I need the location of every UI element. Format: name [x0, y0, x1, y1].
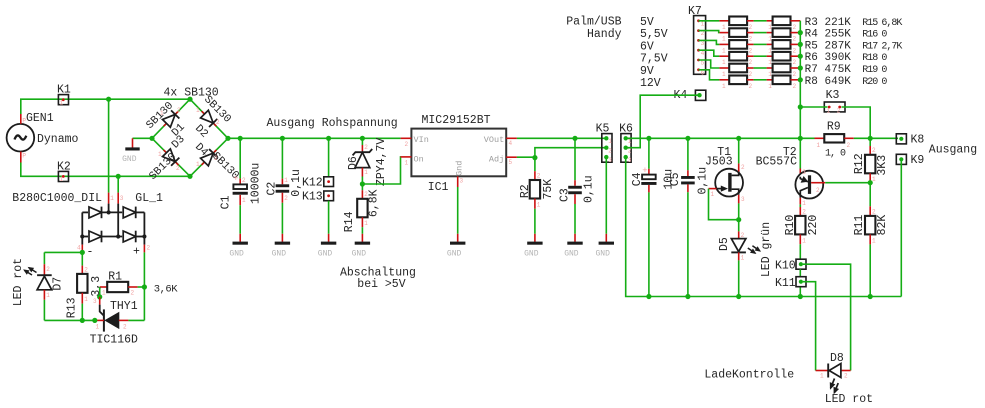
- svg-text:Ausgang: Ausgang: [929, 143, 977, 156]
- svg-text:1, 0: 1, 0: [825, 149, 846, 160]
- ground symbol under C2: [272, 234, 291, 259]
- capacitor C2 0,1u: [266, 138, 304, 234]
- svg-text:GL_1: GL_1: [135, 192, 163, 205]
- connector K5: [596, 122, 613, 164]
- label voltage 12V: [640, 77, 661, 90]
- wire raw voltage rail (bridge to IC VIn): [228, 137, 401, 139]
- svg-text:10000u: 10000u: [250, 163, 263, 204]
- svg-text:R5: R5: [805, 40, 818, 52]
- svg-text:1: 1: [608, 138, 612, 145]
- svg-text:1: 1: [60, 176, 64, 183]
- svg-text:2: 2: [793, 24, 797, 31]
- ground symbol under K13: [318, 234, 337, 259]
- wire T2 collector to R10: [799, 204, 801, 207]
- connector K7: [688, 5, 706, 76]
- wire K7 pin6 to resistor row R8: [699, 70, 720, 80]
- pin stub GL_1 plus: [143, 245, 145, 253]
- wire base node down to R11: [869, 183, 871, 207]
- junction D6/R14/On node: [360, 181, 365, 186]
- pin stub T2 collector: [799, 198, 801, 205]
- svg-text:R7: R7: [805, 64, 818, 76]
- svg-text:1: 1: [196, 107, 200, 114]
- svg-text:1: 1: [102, 290, 106, 297]
- pin stub THY1 anode: [119, 319, 129, 321]
- svg-text:2: 2: [242, 177, 246, 184]
- pin stub T2 base: [811, 182, 825, 184]
- svg-text:C3: C3: [559, 188, 572, 202]
- label B280C1000_DIL: [12, 192, 102, 205]
- svg-text:0,1u: 0,1u: [583, 175, 596, 203]
- wire K5 pin3 to ground: [605, 157, 607, 234]
- diode D2 SB130 (top-right arm): [192, 94, 233, 141]
- wire between R7 and R19: [754, 67, 767, 69]
- resistor R12 3K3: [853, 138, 889, 183]
- junction C4 ground rail: [646, 294, 651, 299]
- svg-text:6V: 6V: [640, 40, 654, 53]
- wire IC1 Gnd down: [457, 187, 459, 234]
- svg-text:2: 2: [216, 119, 220, 126]
- wire from GEN1 to K1 and bridge top node (net N$1): [21, 99, 190, 114]
- node bottom of bridge: [187, 174, 192, 179]
- wire T2 emitter: [799, 138, 801, 168]
- svg-text:K3: K3: [826, 89, 840, 102]
- junction K3 left on divider column: [798, 104, 803, 109]
- svg-text:2: 2: [749, 71, 753, 78]
- junction R13 on cathode line: [80, 318, 85, 323]
- svg-text:THY1: THY1: [110, 300, 138, 313]
- svg-text:390K: 390K: [825, 52, 852, 64]
- label Palm/USB Handy: [566, 16, 621, 42]
- svg-text:LED rot: LED rot: [12, 258, 25, 306]
- svg-text:221K: 221K: [825, 17, 852, 29]
- svg-text:D8: D8: [830, 352, 844, 365]
- label R3 221K: [805, 17, 852, 29]
- svg-text:1: 1: [158, 151, 162, 158]
- junction D6 on rail: [360, 136, 365, 141]
- wire K10 to D8 anode: [803, 264, 851, 370]
- svg-text:R12: R12: [853, 153, 866, 174]
- LED D8 rot (LadeKontrolle): [820, 352, 873, 406]
- svg-text:1: 1: [872, 238, 876, 245]
- svg-text:Adj: Adj: [489, 155, 504, 165]
- svg-text:2: 2: [837, 108, 841, 115]
- junction R9/K3/R12/K8 node: [868, 136, 873, 141]
- svg-text:75K: 75K: [542, 179, 555, 200]
- svg-text:K13: K13: [302, 191, 323, 204]
- junction divider column row 6: [798, 77, 803, 82]
- junction C2 on rail: [280, 136, 285, 141]
- svg-text:1: 1: [405, 160, 409, 167]
- connector K11: [775, 277, 806, 290]
- svg-text:255K: 255K: [825, 29, 852, 41]
- junction on K1 net to GL_1 pin1: [106, 97, 111, 193]
- connector K12: [302, 176, 334, 189]
- junction C4 on output rail: [646, 136, 651, 141]
- wire between R4 and R16: [754, 32, 767, 34]
- junction T2/K3/divider on output rail: [798, 136, 803, 141]
- capacitor C5 0,1u: [669, 138, 710, 296]
- node right of bridge: [225, 136, 230, 141]
- resistor R3 221K: [719, 17, 753, 31]
- svg-text:GND: GND: [229, 249, 244, 258]
- svg-text:1: 1: [284, 177, 288, 184]
- junction divider column row 5: [798, 65, 803, 70]
- junction C5 on output rail: [685, 136, 690, 141]
- svg-text:287K: 287K: [825, 40, 852, 52]
- wire T2 base to divider node: [825, 182, 870, 184]
- svg-text:R13: R13: [66, 297, 79, 318]
- wire K3 left: [800, 106, 827, 108]
- pin stub GL_1 pin1: [109, 193, 115, 204]
- ground symbol under R2: [524, 234, 543, 259]
- label R6 390K: [805, 52, 852, 64]
- svg-text:1: 1: [722, 47, 726, 54]
- svg-text:C5: C5: [669, 172, 682, 186]
- svg-text:VIn: VIn: [414, 135, 429, 145]
- junction R10/K11 ground rail: [798, 294, 803, 299]
- svg-text:6,8K: 6,8K: [368, 189, 381, 217]
- ground symbol under K5: [595, 234, 614, 259]
- svg-text:R8: R8: [805, 76, 818, 88]
- wire bridge edge left-bottom: [152, 138, 190, 176]
- label R16 0: [862, 30, 887, 41]
- junction T2 base / R12 / R11 node: [868, 180, 873, 185]
- zener diode D6 ZPY4,7V: [347, 138, 388, 186]
- svg-text:On: On: [414, 155, 424, 165]
- svg-text:Gnd: Gnd: [455, 161, 465, 176]
- svg-text:1: 1: [364, 220, 368, 227]
- label R15 6,8K: [862, 18, 902, 29]
- pin stub IC1 Adj: [506, 156, 517, 158]
- ground symbol at bridge left node: [122, 138, 152, 164]
- svg-text:2: 2: [749, 59, 753, 66]
- svg-text:1: 1: [537, 202, 541, 209]
- wire between R8 and R20: [754, 79, 767, 81]
- svg-text:TIC116D: TIC116D: [90, 334, 138, 347]
- svg-text:D6: D6: [347, 156, 360, 170]
- pin stub D8 anode: [841, 370, 850, 372]
- svg-text:1: 1: [711, 191, 715, 198]
- svg-text:R10: R10: [784, 215, 797, 236]
- svg-text:K10: K10: [775, 260, 796, 273]
- connector K10: [775, 259, 806, 272]
- svg-text:R20: R20: [862, 77, 878, 88]
- svg-text:2: 2: [537, 173, 541, 180]
- svg-text:K8: K8: [911, 133, 925, 146]
- generator GEN1 Dynamo: [7, 112, 79, 163]
- svg-text:GND: GND: [318, 249, 333, 258]
- capacitor C3 0,1u: [559, 138, 596, 234]
- svg-text:1: 1: [160, 110, 164, 117]
- wire to IC On pin: [362, 157, 401, 184]
- svg-text:2: 2: [749, 24, 753, 31]
- svg-text:6,8K: 6,8K: [881, 18, 902, 29]
- label R4 255K: [805, 29, 852, 41]
- svg-text:VOut: VOut: [484, 135, 504, 145]
- resistor R19 0: [767, 64, 801, 78]
- resistor R14 6,8K: [343, 184, 381, 234]
- svg-text:7,5V: 7,5V: [640, 53, 668, 66]
- wire K7 pin3 to resistor row R5: [699, 40, 720, 44]
- pin stub T2 emitter: [799, 169, 801, 178]
- svg-text:3: 3: [608, 157, 612, 164]
- svg-text:1: 1: [110, 195, 114, 202]
- svg-text:12V: 12V: [640, 77, 661, 90]
- wire anode to plus wire: [128, 319, 144, 321]
- svg-text:+: +: [233, 174, 238, 184]
- resistor R13 3,3: [66, 266, 103, 321]
- junction divider column row 4: [798, 54, 803, 59]
- svg-text:3: 3: [460, 178, 464, 185]
- wire cathode line: [44, 319, 94, 321]
- svg-text:K9: K9: [911, 154, 925, 167]
- svg-text:5V: 5V: [640, 16, 654, 29]
- svg-text:2: 2: [284, 195, 288, 202]
- svg-text:2: 2: [793, 36, 797, 43]
- svg-text:R19: R19: [862, 65, 878, 76]
- svg-text:2: 2: [214, 155, 218, 162]
- wire switched ground rail: [626, 157, 902, 296]
- svg-text:1: 1: [820, 373, 824, 380]
- svg-text:BC557C: BC557C: [756, 156, 798, 169]
- jumper K3: [824, 89, 845, 115]
- svg-text:4: 4: [509, 140, 513, 147]
- svg-text:R17: R17: [862, 41, 878, 52]
- svg-text:GND: GND: [564, 249, 579, 258]
- svg-text:5: 5: [509, 159, 513, 166]
- svg-text:R15: R15: [862, 18, 878, 29]
- svg-text:1: 1: [722, 83, 726, 90]
- svg-text:B280C1000_DIL: B280C1000_DIL: [12, 192, 102, 205]
- resistor R15 6,8K: [767, 17, 801, 31]
- wire K3 right down to rail: [842, 107, 871, 138]
- resistor R10 220: [784, 207, 820, 259]
- svg-text:R9: R9: [827, 121, 841, 134]
- wire K7 pin4 to resistor row R6: [699, 50, 720, 56]
- svg-text:2: 2: [844, 373, 848, 380]
- wire T1 drain: [738, 138, 740, 163]
- svg-text:2: 2: [802, 209, 806, 216]
- svg-text:82K: 82K: [876, 215, 889, 236]
- svg-text:2: 2: [177, 107, 181, 114]
- label R19 0: [862, 65, 887, 76]
- op-amp regulator U IC1 MIC29152BT: [405, 114, 513, 194]
- wire K7 pin2 to resistor row R4: [699, 31, 720, 33]
- svg-text:1: 1: [802, 238, 806, 245]
- svg-text:R16: R16: [862, 30, 878, 41]
- label Ausgang: [929, 143, 977, 156]
- svg-text:9V: 9V: [640, 65, 654, 78]
- svg-text:GND: GND: [447, 249, 462, 258]
- label R20 0: [862, 77, 887, 88]
- wire GL minus node: [44, 252, 82, 265]
- connector K9: [896, 154, 924, 167]
- junction on K2 net to GL_1 pin3: [116, 174, 121, 193]
- svg-text:R11: R11: [853, 215, 866, 236]
- svg-text:3: 3: [93, 298, 97, 305]
- svg-text:2: 2: [123, 324, 127, 331]
- svg-text:1: 1: [242, 197, 246, 204]
- svg-text:R3: R3: [805, 17, 818, 29]
- svg-text:2: 2: [793, 71, 797, 78]
- svg-text:LadeKontrolle: LadeKontrolle: [704, 369, 794, 382]
- svg-text:1: 1: [60, 100, 64, 107]
- transistor T2 BC557C (PNP): [756, 146, 824, 207]
- wire R1 left to thyristor gate: [99, 287, 101, 297]
- label R7 475K: [805, 64, 852, 76]
- svg-text:2: 2: [405, 141, 409, 148]
- svg-text:R2: R2: [519, 184, 532, 198]
- resistor R1 3,6K: [100, 271, 179, 297]
- svg-text:R18: R18: [862, 53, 878, 64]
- svg-text:1: 1: [46, 292, 50, 299]
- wire between R3 and R15: [754, 20, 767, 22]
- svg-text:2: 2: [816, 187, 820, 194]
- svg-text:GEN1: GEN1: [26, 112, 54, 125]
- ground symbol under R14: [352, 234, 371, 259]
- capacitor C1 10000u: [220, 138, 263, 234]
- label GL_1: [135, 192, 163, 205]
- node top of bridge: [187, 97, 192, 102]
- label R5 287K: [805, 40, 852, 52]
- svg-text:2: 2: [608, 147, 612, 154]
- ground symbol under C1: [229, 234, 248, 259]
- LED D7 rot: [12, 252, 65, 306]
- pin stub IC1 On: [401, 156, 412, 158]
- wire output rail K6 to R9: [626, 137, 815, 139]
- svg-text:IC1: IC1: [428, 181, 449, 194]
- svg-text:P: P: [22, 153, 26, 160]
- pin stub GL_1 minus: [81, 245, 83, 253]
- junction C3 on rail: [572, 136, 577, 141]
- wire T1 source to gate loop: [738, 203, 740, 219]
- junction C5 ground rail: [685, 294, 690, 299]
- svg-text:Dynamo: Dynamo: [37, 133, 79, 146]
- svg-text:3,6K: 3,6K: [154, 284, 178, 296]
- connector K1: [57, 84, 71, 107]
- wire rail to K12: [326, 136, 331, 177]
- label voltage 5V: [640, 16, 654, 29]
- pin stub T1 gate: [709, 188, 717, 190]
- resistor R5 287K: [719, 40, 753, 54]
- wire R10 to K10 to K11 to rail: [799, 269, 801, 296]
- svg-text:K12: K12: [302, 176, 323, 189]
- svg-text:1: 1: [817, 142, 821, 149]
- svg-text:C1: C1: [220, 195, 233, 209]
- wire R9 to K8: [854, 137, 898, 139]
- wire Adj to node: [517, 156, 535, 158]
- label voltage 6V: [640, 40, 654, 53]
- svg-text:-: -: [87, 246, 94, 259]
- label R8 649K: [805, 76, 852, 88]
- junction C1 on rail: [238, 136, 243, 141]
- svg-text:Handy: Handy: [587, 28, 622, 41]
- pin stub D8 cathode: [816, 370, 828, 372]
- svg-text:2: 2: [793, 47, 797, 54]
- svg-text:Palm/USB: Palm/USB: [566, 16, 621, 29]
- svg-text:1: 1: [722, 71, 726, 78]
- pin stub T1 source: [738, 195, 740, 204]
- label Ausgang Rohspannung: [267, 117, 398, 130]
- ground symbol under C3: [564, 234, 583, 259]
- svg-text:2: 2: [749, 83, 753, 90]
- svg-text:0,1u: 0,1u: [697, 167, 710, 195]
- resistor R6 390K: [719, 52, 753, 66]
- junction T1 source/gate/D5: [736, 217, 741, 222]
- svg-text:1: 1: [722, 36, 726, 43]
- svg-text:2: 2: [364, 144, 368, 151]
- svg-text:1: 1: [722, 59, 726, 66]
- svg-text:2: 2: [84, 267, 88, 274]
- wire D5 to ground rail: [738, 260, 740, 296]
- wire T1 gate loop: [709, 189, 739, 220]
- resistor R8 649K: [719, 76, 753, 90]
- pin stub T1 drain: [738, 163, 740, 171]
- connector K4: [674, 89, 706, 102]
- svg-text:3: 3: [802, 169, 806, 176]
- svg-text:GND: GND: [595, 249, 610, 258]
- junction divider column row 2: [798, 30, 803, 35]
- svg-text:1: 1: [84, 296, 88, 303]
- svg-text:3: 3: [628, 157, 632, 164]
- junction divider column row 3: [798, 42, 803, 47]
- svg-text:475K: 475K: [825, 64, 852, 76]
- svg-text:2: 2: [46, 266, 50, 273]
- svg-text:1: 1: [827, 108, 831, 115]
- junction D5 ground rail: [736, 294, 741, 299]
- svg-text:ZPY4,7V: ZPY4,7V: [375, 138, 388, 186]
- wire K9 down to ground rail: [900, 159, 902, 296]
- pin stub GL_1 pin3: [118, 193, 124, 204]
- svg-text:2: 2: [147, 245, 151, 252]
- resistor R11 82K: [853, 206, 889, 296]
- svg-text:K11: K11: [775, 277, 796, 290]
- diode D4 SB130 (bottom-right arm): [192, 141, 241, 182]
- svg-text:D5: D5: [718, 237, 731, 251]
- wire K7 pin5 to resistor row R7: [699, 60, 720, 68]
- svg-text:1: 1: [768, 83, 772, 90]
- svg-text:2: 2: [793, 83, 797, 90]
- svg-text:GND: GND: [524, 249, 539, 258]
- svg-text:4: 4: [77, 245, 81, 252]
- resistor R7 475K: [719, 64, 753, 78]
- label R17 2,7K: [862, 41, 902, 52]
- junction GL minus / D7 / R13: [80, 250, 85, 255]
- thyristor THY1 TIC116D: [90, 297, 138, 347]
- wire between R5 and R17: [754, 43, 767, 45]
- svg-text:Ausgang Rohspannung: Ausgang Rohspannung: [267, 117, 398, 130]
- svg-text:2: 2: [176, 165, 180, 172]
- junction R1 right on plus wire: [142, 284, 147, 289]
- junction cathode pin: [92, 318, 97, 323]
- label Abschaltung bei >5V: [340, 267, 416, 291]
- LED D5 gruen: [718, 220, 773, 277]
- connector K13: [302, 191, 334, 234]
- resistor R9 1,0: [815, 121, 854, 160]
- svg-text:GND: GND: [272, 249, 287, 258]
- resistor R20 0: [767, 76, 801, 90]
- pin stub IC1 VOut: [506, 137, 517, 139]
- pin stub IC1 Gnd: [457, 176, 459, 187]
- svg-text:R6: R6: [805, 52, 818, 64]
- wire K4 to K6 pin2: [626, 95, 700, 148]
- svg-text:C4: C4: [631, 172, 644, 186]
- pin stub THY1 cathode: [95, 319, 104, 321]
- svg-text:2: 2: [847, 142, 851, 149]
- svg-text:1: 1: [196, 161, 200, 168]
- connector K2: [57, 161, 71, 184]
- label LadeKontrolle: [704, 369, 794, 382]
